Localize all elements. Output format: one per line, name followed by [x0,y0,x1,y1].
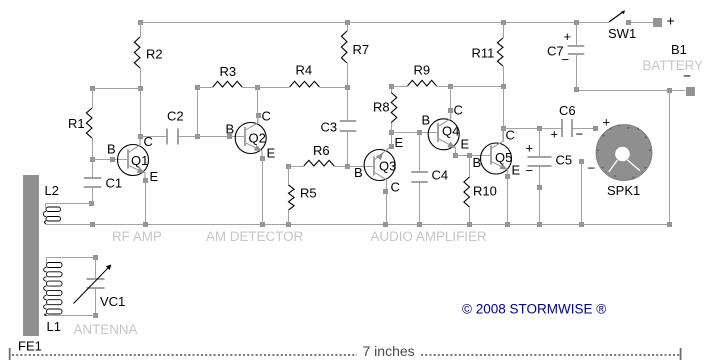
svg-text:−: − [683,68,691,84]
svg-text:E: E [395,135,404,150]
transistor Q3 emitter lead [374,146,391,160]
resistor R6 [304,160,334,166]
coil L2 [45,204,47,208]
transistor Q2 circle [235,123,266,154]
svg-text:R2: R2 [146,47,163,62]
battery B1 plus terminal [653,18,662,27]
node Q1 emitter [143,178,148,183]
transistor Q1 circle [118,145,149,176]
node speaker minus [579,159,584,164]
resistor R10 [464,177,470,207]
wire Q3 collector to ground rail [386,192,388,225]
transistor Q1 emitter arrow [137,167,145,173]
node ground rail Q3 collector [383,222,388,227]
wire R6 left stub [289,166,304,168]
transistor Q4 collector lead [438,111,450,127]
battery B1 minus terminal [686,87,695,96]
wire C6 to speaker plus [572,128,595,130]
svg-text:+: + [551,127,559,142]
resistor R5 [289,185,295,210]
node Q2 collector [256,113,261,118]
wire C1 bottom lead [92,187,94,203]
node battery minus junction [667,88,672,93]
svg-text:VC1: VC1 [100,294,125,309]
speaker SPK1 body [596,125,652,181]
switch SW1 arm [609,12,624,23]
node top rail / R7 top [345,20,350,25]
svg-text:Q2: Q2 [249,131,266,146]
node ground rail battery return [667,222,672,227]
svg-text:7 inches: 7 inches [363,343,415,359]
transistor Q1 emitter lead [128,165,145,180]
transistor Q2 emitter lead [245,143,262,158]
svg-text:RF AMP: RF AMP [112,229,162,244]
wire C5 bottom lead [539,167,541,188]
svg-text:R4: R4 [296,63,313,78]
wire Q3 base [347,166,374,168]
transistor Q2 emitter arrow [254,145,262,151]
svg-text:B: B [422,113,431,128]
svg-text:Q5: Q5 [495,150,512,165]
svg-text:B: B [473,155,482,170]
wire R1 top stub [92,88,94,108]
wire C1 top lead [92,159,94,178]
wire R3 left riser [197,87,199,137]
ferrite rod FE1 [23,175,39,336]
transistor Q4 base bar [437,123,439,142]
svg-text:B: B [226,122,235,137]
transistor Q2 collector lead [245,116,257,131]
capacitor C4 plates [411,171,427,173]
wire R7 bottom stub [347,63,349,87]
wire R5 top stub [288,166,290,185]
node Q1 collector / C2 left junction [138,134,143,139]
svg-text:AM DETECTOR: AM DETECTOR [206,229,304,244]
node Q3 emitter [389,144,394,149]
variable capacitor VC1 arrow [74,268,109,304]
speaker SPK1 cone lines [609,160,640,172]
svg-text:R10: R10 [473,184,497,199]
dimension line left end bar [9,348,11,360]
wire R3 left stub [198,87,213,89]
node C2 right / Q2 base junction [195,134,200,139]
wire R9 right stub [437,86,451,88]
transistor Q5 emitter arrow [499,163,507,169]
wire R1 bottom stub [92,138,94,159]
node ground rail speaker minus [579,222,584,227]
wire R2 to R1 top [92,88,140,90]
wire R6 right stub [334,166,347,168]
wire R8 to Q4 base [392,132,439,134]
svg-text:R3: R3 [220,64,237,79]
wire R2 top stub [140,22,142,37]
transistor Q2 base bar [244,127,246,146]
wire R8 bottom stub [391,123,393,133]
wire VC1 top lead [95,257,97,279]
wire Q5 collector to C6 [503,128,562,130]
transistor Q5 emitter lead [491,161,508,176]
wire switch to battery plus [629,22,654,24]
resistor R7 [341,31,347,63]
node R8 bottom [389,130,394,135]
transistor Q5 collector lead [491,128,503,149]
resistor R8 [391,93,397,123]
wire R11 bottom stub [503,66,505,86]
node C4 top / Q4 base [417,130,422,135]
node Q3 collector [383,189,388,194]
node Q4 collector [448,108,453,113]
wire C3 top lead [347,87,349,121]
node ground rail R5 bottom [286,222,291,227]
wire speaker minus to ground rail [581,161,583,224]
transistor Q3 base bar [373,157,375,176]
svg-text:+: + [564,29,572,44]
speaker SPK1 center hole [615,147,630,162]
svg-text:+: + [667,13,675,29]
svg-text:B1: B1 [671,42,687,57]
wire Q5 emitter to ground rail [507,177,509,225]
wire C4 top lead [419,133,421,173]
node R1 bottom / Q1 base junction [90,157,95,162]
svg-text:BATTERY: BATTERY [643,58,704,73]
node Q5 collector [501,126,506,131]
svg-text:C5: C5 [556,153,573,168]
wire top supply rail [140,22,609,24]
node R10 top / Q5 base [467,153,472,158]
svg-text:R1: R1 [68,116,85,131]
svg-text:−: − [562,52,570,67]
node R5 top / R6 left [286,164,291,169]
variable capacitor VC1 plates [87,278,105,280]
svg-text:C1: C1 [106,176,123,191]
node C7 bottom junction [574,87,579,92]
svg-text:R8: R8 [373,100,390,115]
svg-text:C2: C2 [167,109,184,124]
svg-text:C: C [506,128,515,143]
wire C7 bottom lead [576,54,578,90]
wire Q4 collector riser [450,86,452,119]
transistor Q3 emitter arrow [376,153,383,161]
wire R9 left stub [392,86,408,88]
wire Q2 collector riser [257,87,259,123]
wire C7 top lead [576,22,578,46]
svg-text:SW1: SW1 [608,26,636,41]
node R9 right [448,84,453,89]
transistor Q4 circle [428,119,459,150]
node top rail / R2 top [138,20,143,25]
wire R7 top stub [347,22,349,31]
dimension line dotted right segment [421,354,680,356]
node R2 bottom [138,86,143,91]
svg-text:−: − [576,127,584,142]
svg-text:ANTENNA: ANTENNA [74,322,138,337]
capacitor C2 plates [166,129,168,145]
wire C2 right lead [178,136,197,138]
wire R2 bottom stub [140,68,142,88]
node ground rail C5 bottom [537,222,542,227]
node ground rail L2 bottom [90,222,95,227]
wire ground rail [46,224,670,226]
node C1 bottom / L2 top [89,201,94,206]
wire Q1 base [92,159,128,161]
wire L1 bottom to VC1 bottom [47,315,96,317]
wire C4 bottom lead [419,182,421,224]
wire R5 bottom stub [288,210,290,224]
wire C2 left lead [140,136,167,138]
transistor Q5 base bar [490,146,492,165]
svg-text:SPK1: SPK1 [607,183,640,198]
speaker SPK1 rim dots [628,127,630,129]
node top rail / R11 top [501,20,506,25]
svg-text:C: C [262,109,271,124]
wire R4 right stub [319,87,347,89]
svg-text:E: E [512,163,521,178]
wire R9 to R11 bottom [451,86,503,88]
transistor Q4 emitter arrow [447,142,455,148]
svg-text:R5: R5 [300,186,317,201]
wire R11 to Q5 collector [503,86,505,141]
node Q2 base pin [227,134,232,139]
svg-text:R11: R11 [472,46,495,61]
svg-text:C: C [391,180,400,195]
svg-text:© 2008 STORMWISE ®: © 2008 STORMWISE ® [462,302,606,317]
svg-text:C4: C4 [432,168,449,183]
node R3 left [195,85,200,90]
node R4 right / R7 bottom [345,85,350,90]
resistor R11 [497,38,503,66]
svg-text:−: − [526,163,534,178]
svg-text:E: E [267,146,276,161]
capacitor C6 plates [561,119,563,137]
capacitor C5 plates [528,156,552,158]
node R11 bottom [501,84,506,89]
capacitor C1 plates [84,177,101,179]
wire R10 bottom stub [469,207,471,224]
node VC1 top [93,255,98,260]
wire Q2 emitter to ground rail [262,158,264,224]
node R8 top / R9 left [389,84,394,89]
resistor R3 [213,81,242,87]
wire C5 top lead [539,128,541,157]
transistor Q3 collector lead [374,172,386,191]
wire C5 bottom to ground rail [539,187,541,224]
node ground rail R10 bottom [467,222,472,227]
resistor R2 [134,37,140,68]
resistor R9 [408,80,437,86]
svg-text:Q1: Q1 [131,153,148,168]
svg-text:+: + [603,115,611,130]
svg-text:L2: L2 [45,183,59,198]
svg-text:+: + [526,141,534,156]
svg-text:Q3: Q3 [379,159,396,174]
wire Q1 emitter to ground rail [145,180,147,224]
wire C3 bottom lead [347,131,349,166]
wire R8 top stub [391,86,393,93]
node C5 bottom pin [537,185,542,190]
transistor Q1 collector lead [128,137,140,153]
wire R10 top stub [469,155,471,177]
node Q5 emitter [505,174,510,179]
wire Q4 emitter to Q5 base [456,155,491,157]
svg-text:E: E [461,137,470,152]
svg-text:C: C [454,103,463,118]
node top rail / C7 top [574,20,579,25]
node R3 R4 / Q2 collector junction [255,85,260,90]
node ground rail Q1 emitter [143,222,148,227]
svg-text:−: − [588,161,596,176]
svg-text:L1: L1 [47,319,61,334]
dimension line right end bar [680,348,682,360]
svg-text:C3: C3 [321,120,338,135]
dimension line dotted left segment [12,354,357,356]
wire L2 top lead [46,203,92,205]
wire R3 right stub [242,87,258,89]
svg-text:R7: R7 [353,42,370,57]
wire Q3 emitter riser [391,133,393,147]
node R6 right / Q3 base [345,164,350,169]
capacitor C7 plates [568,45,585,47]
node Q1 base pin [110,157,115,162]
wire C7 bottom to battery minus [576,90,686,92]
wire Q1 collector riser [140,88,142,137]
svg-text:Q4: Q4 [442,124,459,139]
node speaker plus [593,126,598,131]
capacitor C3 plates [340,120,356,122]
coil L1 [46,257,48,263]
wire L1 top to VC1 top [47,257,96,259]
svg-text:AUDIO AMPLIFIER: AUDIO AMPLIFIER [371,229,487,244]
wire R11 top stub [503,22,505,38]
transistor Q3 circle [364,150,395,181]
resistor R1 [86,108,92,138]
node VC1 bottom [93,313,98,318]
wire VC1 bottom lead [95,288,97,316]
node SW1 right pad [626,20,631,25]
node Q2 emitter [260,156,265,161]
svg-text:R9: R9 [414,63,431,78]
svg-text:R6: R6 [313,143,330,158]
node ground rail Q5 emitter [505,222,510,227]
svg-text:E: E [150,169,159,184]
node R1 top [90,86,95,91]
wire R4 left stub [258,87,290,89]
svg-text:B: B [107,142,116,157]
transistor Q5 circle [481,143,512,174]
node Q4 emitter [453,153,458,158]
transistor Q1 base bar [127,150,129,169]
wire Q2 base [198,136,246,138]
node C5 top / C6 junction [537,126,542,131]
wire battery minus down to ground rail [669,90,671,224]
node ground rail C4 bottom [417,222,422,227]
svg-text:FE1: FE1 [18,339,42,354]
svg-text:B: B [354,165,363,180]
transistor Q4 emitter lead [438,139,455,155]
resistor R4 [290,81,320,87]
node ground rail Q2 emitter [260,222,265,227]
svg-text:C6: C6 [559,103,576,118]
